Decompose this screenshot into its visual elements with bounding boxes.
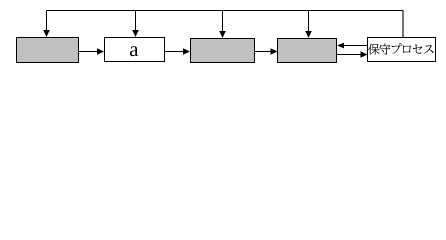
arrow box4 to maintenance box (lower, pointing right) — [337, 54, 362, 56]
process box 4 (gray) — [278, 39, 337, 63]
arrowhead into box 3 — [219, 31, 226, 38]
arrowhead into box 1 — [43, 30, 50, 37]
process box 3 (gray) — [191, 39, 255, 63]
process box 2 (white, labeled a) — [105, 38, 165, 62]
arrowhead into box3 left edge — [183, 48, 190, 55]
arrow box1 to box2 — [79, 51, 98, 53]
process box 1 (gray) — [17, 38, 79, 63]
wire drop into process box 3 — [222, 11, 224, 32]
arrow box3 to box4 — [255, 51, 272, 53]
label a — [130, 46, 138, 56]
wire trunk (top horizontal bus) — [47, 10, 404, 12]
wire drop into process box 1 — [46, 11, 48, 31]
label 保守プロセス (drawn as outlines) — [368, 43, 433, 55]
arrowhead into box4 right edge — [337, 43, 344, 49]
wire drop into maintenance process box — [402, 11, 404, 40]
arrowhead into box2 left edge — [97, 48, 104, 55]
wire drop into process box 2 — [135, 11, 137, 31]
arrowhead into box 2 — [132, 30, 139, 37]
arrowhead into maintenance box left edge — [361, 51, 368, 58]
arrow maintenance box to box4 (upper, pointing left) — [344, 45, 368, 47]
wire drop into process box 4 — [308, 11, 310, 32]
maintenance process box (white) — [368, 38, 436, 62]
arrowhead into box 4 — [305, 31, 312, 38]
arrowhead into box4 left edge — [271, 48, 278, 55]
arrow box2 to box3 — [165, 51, 184, 53]
